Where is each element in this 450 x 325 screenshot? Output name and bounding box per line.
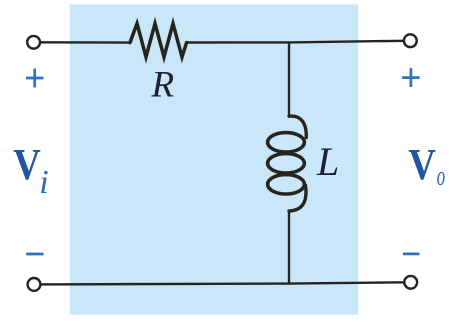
wire bottom-right segment <box>289 282 404 283</box>
svg-text:o: o <box>437 161 445 192</box>
inductor L coil bottom hook <box>289 186 306 211</box>
minus sign right <box>403 252 419 255</box>
terminal circle bottom-right <box>404 276 417 289</box>
inductor L coil loop 3 <box>268 175 305 194</box>
svg-text:V: V <box>408 140 436 189</box>
svg-text:V: V <box>13 140 41 189</box>
wire top-middle segment <box>187 41 289 43</box>
terminal circle top-left <box>27 36 40 49</box>
resistor R <box>130 24 187 58</box>
inductor L coil loop 1 <box>268 133 305 152</box>
svg-text:i: i <box>39 164 48 201</box>
svg-text:R: R <box>151 65 175 106</box>
wire from inductor bottom to bottom rail <box>288 211 290 284</box>
minus sign left <box>26 253 43 256</box>
shaded filter block background <box>70 4 358 314</box>
svg-text:L: L <box>316 139 339 184</box>
terminal circle bottom-left <box>28 278 41 291</box>
plus sign left <box>26 69 43 88</box>
terminal circle top-right <box>404 34 417 47</box>
wire top-right segment <box>289 41 404 43</box>
wire bottom-left segment <box>41 282 289 285</box>
inductor L coil top hook <box>289 116 306 137</box>
wire top-left segment <box>40 41 130 44</box>
node: top junction wire down to inductor <box>288 42 290 116</box>
plus sign right <box>402 68 419 87</box>
inductor L coil loop 2 <box>268 154 305 173</box>
